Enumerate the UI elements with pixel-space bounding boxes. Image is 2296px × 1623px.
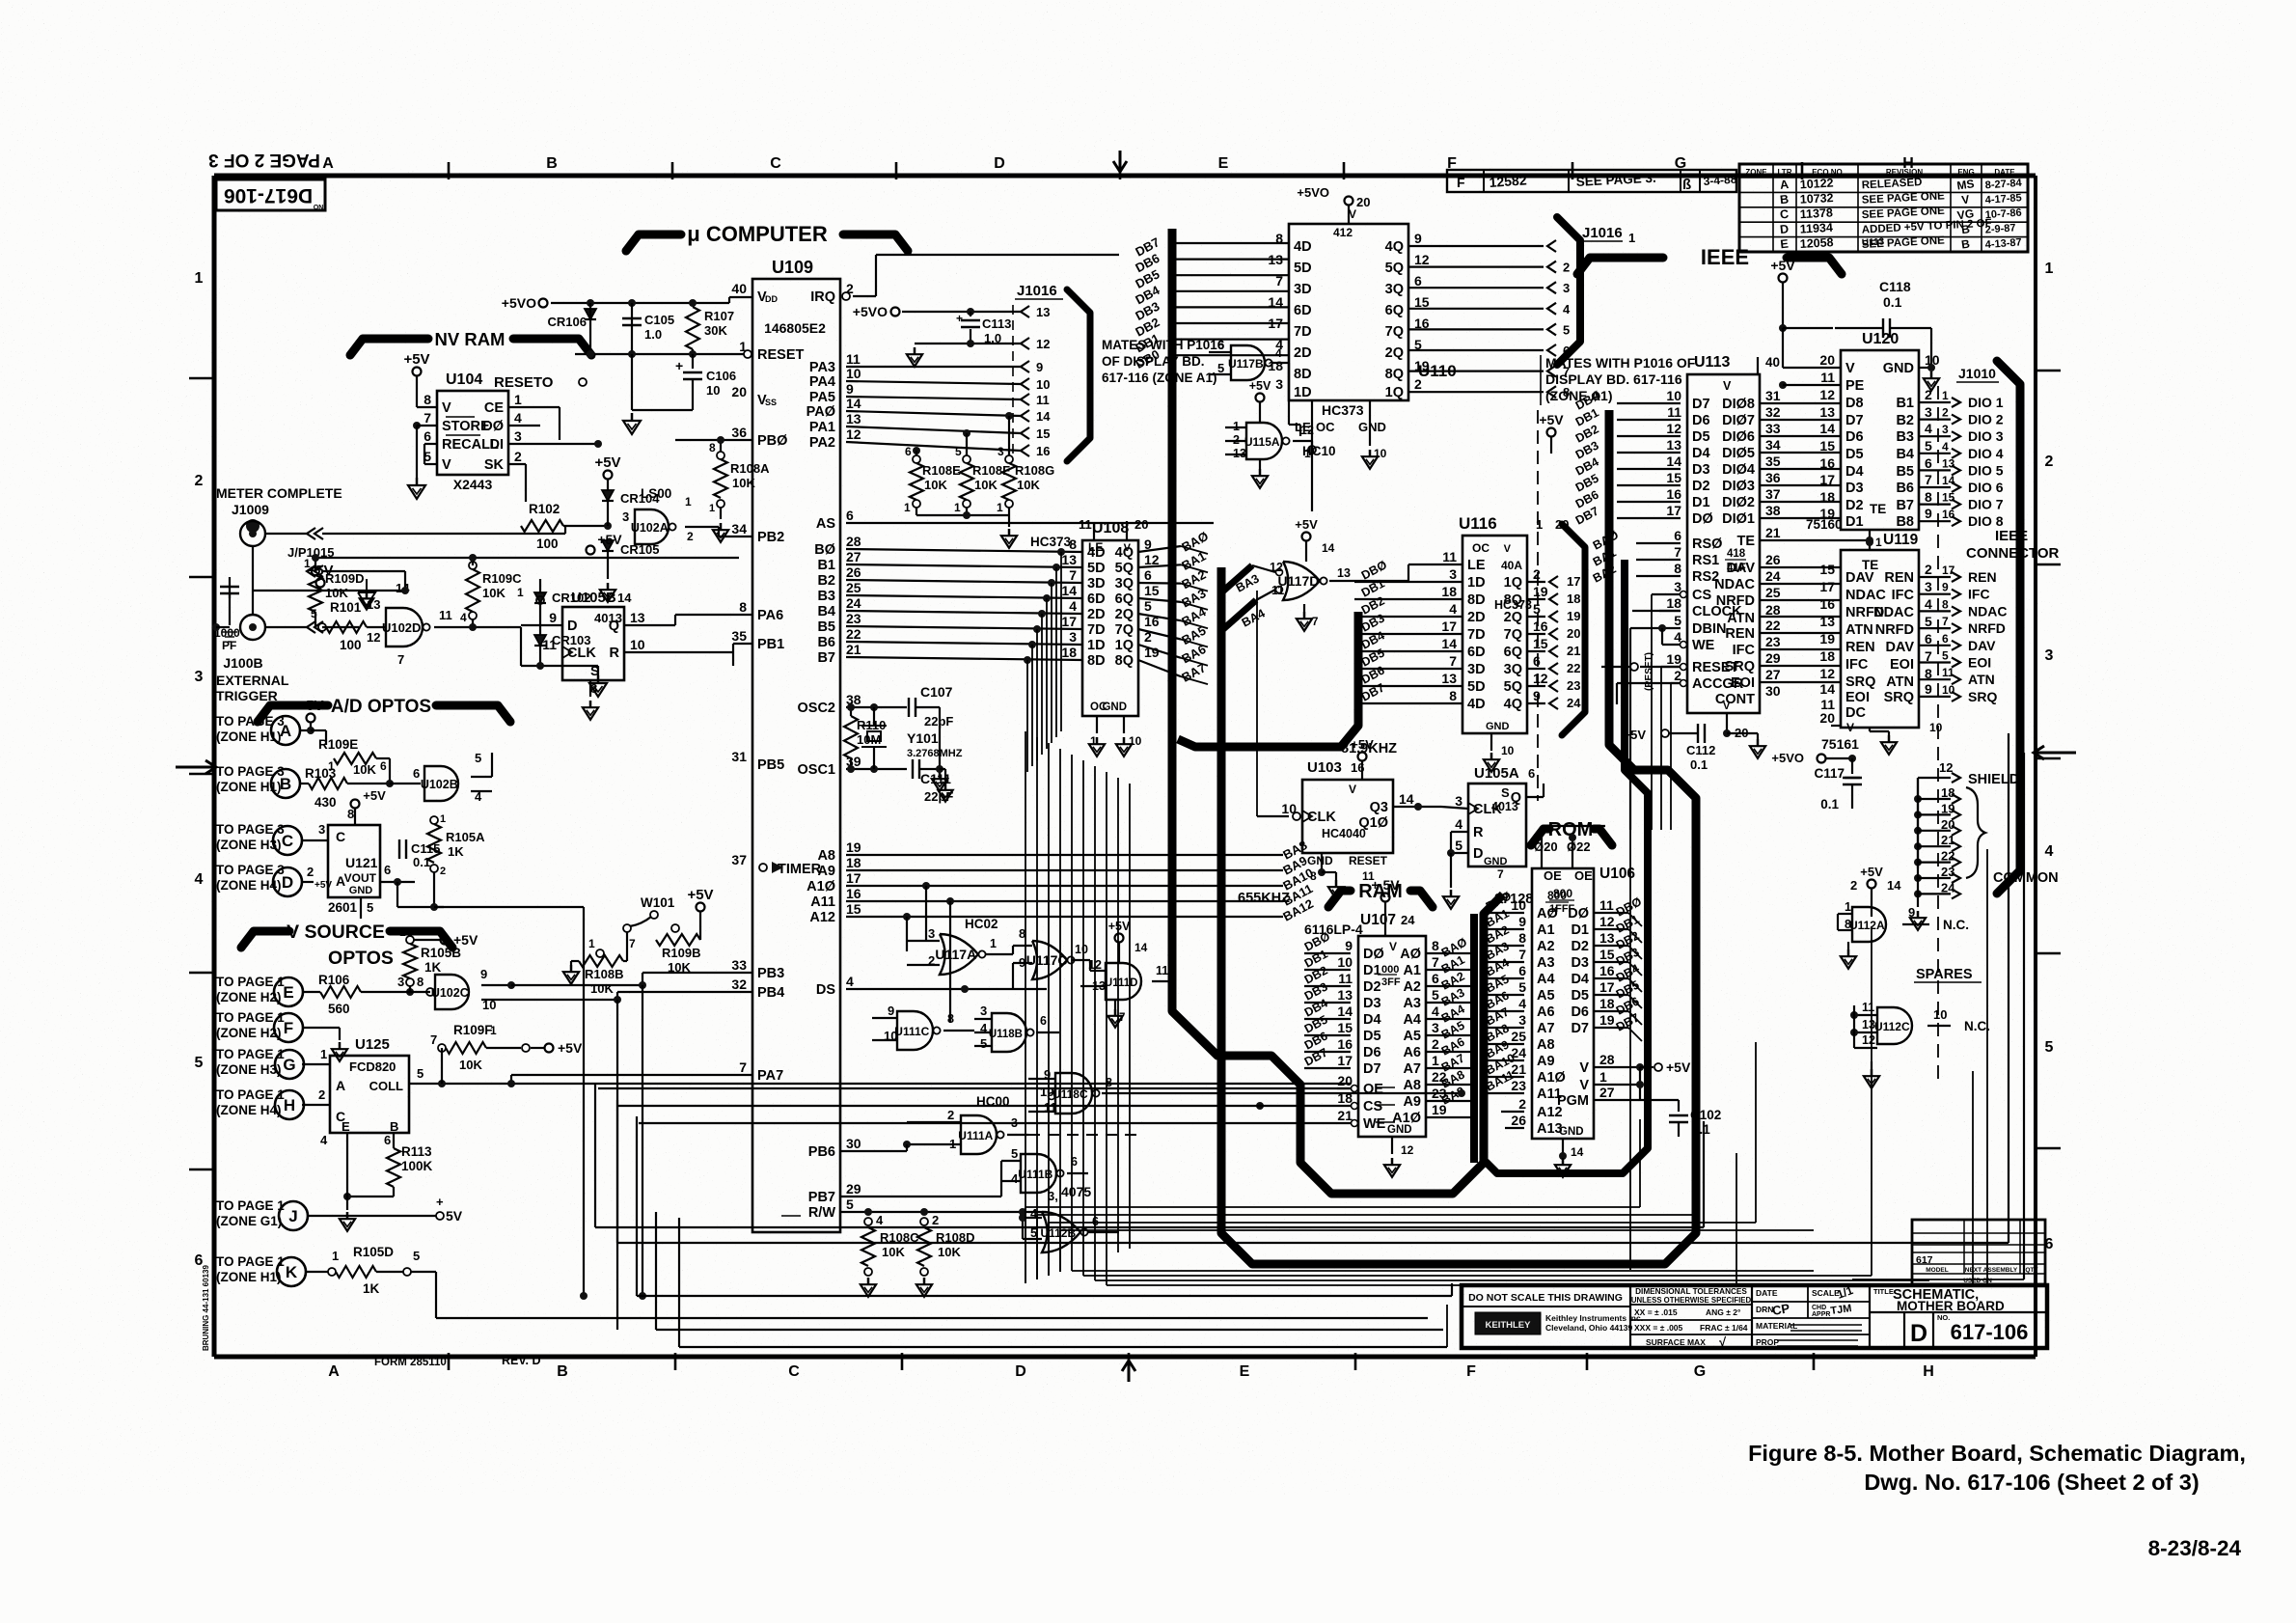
- svg-text:8-23/8-24: 8-23/8-24: [2148, 1536, 2242, 1560]
- svg-text:Dwg. No. 617-106 (Sheet 2 of 3: Dwg. No. 617-106 (Sheet 2 of 3): [1864, 1470, 2199, 1495]
- svg-text:Figure 8-5. Mother Board, Sche: Figure 8-5. Mother Board, Schematic Diag…: [1748, 1441, 2246, 1466]
